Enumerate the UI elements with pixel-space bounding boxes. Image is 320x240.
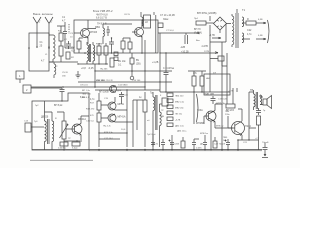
- coupling capacitor box C6a: [158, 23, 163, 28]
- resistor R5: [97, 46, 101, 55]
- svg-text:МВ 0,1: МВ 0,1: [82, 97, 90, 99]
- wire: [188, 71, 206, 92]
- power rail to C7: [158, 32, 199, 34]
- input band switch box A1: [29, 33, 49, 71]
- svg-text:Гр: Гр: [263, 110, 266, 112]
- coil L7: [103, 28, 104, 44]
- svg-text:С15: С15: [104, 98, 109, 100]
- svg-text:25: 25: [40, 45, 43, 48]
- resistor R14: [143, 100, 147, 112]
- svg-text:ПЧВ 10В: ПЧВ 10В: [204, 93, 214, 96]
- svg-text:С6 15: С6 15: [124, 14, 131, 16]
- svg-text:ГР: ГР: [161, 110, 164, 112]
- svg-text:10: 10: [70, 37, 73, 39]
- node s3: [76, 140, 77, 141]
- node q1: [111, 37, 112, 38]
- wire: [99, 43, 106, 64]
- wire: [45, 112, 53, 150]
- node k: [126, 149, 128, 151]
- wire: [260, 95, 263, 105]
- svg-text:С5 20: С5 20: [62, 72, 69, 74]
- wire: [101, 97, 133, 122]
- loudspeaker BA1: [263, 99, 267, 105]
- svg-text:Внеш. антенны: Внеш. антенны: [33, 12, 53, 16]
- pin tick 1': [140, 12, 142, 17]
- AF box outline: [32, 93, 89, 150]
- svg-text:2: 2: [26, 88, 28, 92]
- arrow out 2: [242, 38, 266, 40]
- svg-text:≈127В: ≈127В: [201, 45, 208, 48]
- svg-text:С16 5,0: С16 5,0: [86, 121, 94, 123]
- svg-text:Гр2: Гр2: [35, 105, 39, 107]
- wire VT4 emitter to bottom: [64, 141, 81, 142]
- driver stage resistor R12: [97, 101, 101, 110]
- svg-text:об: об: [147, 120, 150, 122]
- svg-text:ДВ: ДВ: [200, 144, 203, 146]
- node u4: [201, 91, 202, 92]
- wire: [194, 138, 199, 140]
- ground bus: [32, 149, 262, 151]
- node d: [111, 52, 113, 54]
- svg-text:ПВ5: ПВ5: [223, 137, 228, 139]
- svg-text:СГ: СГ: [213, 72, 217, 75]
- voltage table resistor Rb: [167, 99, 173, 103]
- wire hang stubs: [153, 135, 205, 139]
- wire: [19, 79, 21, 83]
- node s2: [63, 149, 64, 150]
- resistor R10: [246, 21, 256, 25]
- svg-text:С7 10 +10,2В: С7 10 +10,2В: [160, 14, 175, 17]
- wire: [60, 41, 62, 62]
- arrowhead rail y52: [215, 52, 218, 54]
- wire y52 rail: [160, 52, 218, 54]
- svg-text:(2В): (2В): [136, 63, 141, 66]
- wire: [79, 38, 83, 53]
- wire: [215, 127, 233, 129]
- wire: [57, 112, 64, 150]
- svg-text:180: 180: [62, 76, 66, 78]
- electrolytic capacitor C24: [203, 139, 207, 149]
- wire: [160, 103, 163, 105]
- svg-text:ЛВ 15к: ЛВ 15к: [175, 114, 182, 116]
- wire: [206, 16, 214, 23]
- svg-text:С7 10,0: С7 10,0: [166, 30, 174, 32]
- wire trunk x160: [159, 33, 161, 92]
- transistor VT7: [206, 111, 216, 121]
- coil L1: [53, 35, 55, 59]
- electrolytic capacitor C25: [226, 139, 230, 149]
- svg-text:1': 1': [39, 21, 41, 24]
- svg-text:Тр1: Тр1: [34, 121, 38, 123]
- VHF tuner block box U1: [74, 20, 158, 53]
- wire base feed VT1: [65, 33, 81, 48]
- wire trunk x127: [126, 90, 128, 147]
- node v4: [193, 149, 194, 150]
- voltage table resistor Ra: [167, 93, 173, 97]
- node h: [94, 86, 96, 88]
- node f: [131, 70, 133, 72]
- svg-text:МП6 1м: МП6 1м: [200, 133, 208, 135]
- wire: [228, 109, 242, 140]
- node s6: [210, 149, 211, 150]
- resistor R1: [59, 33, 63, 41]
- IF transformer L3/L4: [87, 45, 89, 61]
- wire trunk x95: [94, 64, 96, 87]
- node u2: [165, 91, 166, 92]
- voltage table resistor Re: [167, 117, 173, 121]
- power transformer T1: [232, 16, 234, 45]
- svg-text:4,7к: 4,7к: [90, 98, 95, 101]
- caption rule: [30, 159, 93, 161]
- wire: [210, 24, 226, 47]
- wire C1 feed stub: [57, 26, 65, 33]
- capacitor C17: [256, 108, 261, 115]
- capacitor C8: [130, 58, 134, 64]
- node v6: [227, 149, 228, 150]
- node s7: [248, 139, 249, 140]
- node r4: [94, 70, 95, 71]
- electrolytic capacitor C19: [192, 139, 196, 149]
- svg-text:2': 2': [51, 21, 53, 24]
- svg-text:МП5 1к: МП5 1к: [216, 126, 223, 128]
- svg-text:МП26Б: МП26Б: [196, 122, 204, 125]
- svg-text:6,8 10,7 В: 6,8 10,7 В: [96, 17, 107, 20]
- diode bridge VD1: [214, 17, 227, 30]
- electrolytic capacitor C23: [170, 139, 174, 149]
- svg-text:6,3В: 6,3В: [258, 35, 263, 37]
- AGC capacitor box: [218, 56, 224, 61]
- node r1: [77, 63, 78, 64]
- wire: [87, 20, 89, 44]
- node t1: [126, 89, 127, 90]
- node n: [237, 149, 239, 151]
- brace: [268, 20, 270, 43]
- resistor R8: [110, 58, 114, 67]
- svg-text:R17: R17: [90, 103, 95, 105]
- electrolytic capacitor C18: [161, 139, 165, 149]
- resistor R7 ladder top boxes: [114, 52, 118, 56]
- svg-text:(0,25А): (0,25А): [194, 32, 202, 35]
- fuse F1: [196, 21, 206, 25]
- svg-text:С10 390: С10 390: [96, 80, 105, 82]
- arrow out 1: [256, 22, 266, 24]
- wire: [222, 112, 259, 150]
- svg-text:С13: С13: [24, 121, 29, 123]
- svg-text:Пр1: Пр1: [194, 18, 199, 20]
- svg-text:0,05К: 0,05К: [196, 148, 202, 150]
- svg-text:МП41А: МП41А: [118, 116, 126, 119]
- wire from contact 2 to C13: [31, 87, 62, 89]
- svg-text:+0,8: +0,8: [81, 67, 86, 70]
- resistor R16: [257, 116, 261, 125]
- node b: [48, 47, 50, 49]
- electrolytic capacitor C7: [185, 33, 188, 44]
- wire: [123, 38, 130, 53]
- IF transformer L8: [144, 15, 151, 28]
- svg-text:Блок УКВ ИП-2: Блок УКВ ИП-2: [93, 9, 113, 13]
- plus sign C25: [225, 140, 227, 142]
- switch contact box 2: [23, 85, 31, 93]
- switch contact box 1: [16, 71, 24, 79]
- svg-text:+1,2В: +1,2В: [152, 61, 159, 64]
- wire bottom of input filter: [49, 61, 78, 63]
- jack socket X1: [131, 71, 133, 76]
- wire: [220, 24, 231, 34]
- svg-text:R: R: [55, 118, 57, 120]
- voltage table resistor Rf: [167, 123, 173, 127]
- svg-text:6,3В: 6,3В: [258, 19, 263, 21]
- wire mid bus 1: [78, 63, 108, 65]
- wire: [98, 93, 100, 147]
- svg-text:L1: L1: [45, 54, 48, 56]
- capacitor C5a: [107, 26, 111, 36]
- node l: [144, 149, 146, 151]
- node j: [98, 149, 100, 151]
- svg-text:220к: 220к: [225, 114, 230, 116]
- node r3: [105, 63, 106, 64]
- svg-text:L8: L8: [145, 21, 148, 24]
- svg-text:С21: С21: [243, 142, 248, 144]
- node r5: [144, 70, 145, 71]
- transistor VT6: [108, 114, 116, 122]
- wire long bus y82: [78, 81, 172, 83]
- svg-text:КП303: КП303: [90, 31, 98, 34]
- capacitor C14: [72, 142, 80, 146]
- svg-text:ВП 8,2к: ВП 8,2к: [54, 104, 63, 107]
- svg-text:МВ2 20к: МВ2 20к: [175, 108, 184, 110]
- transistor VT1: [81, 29, 90, 38]
- node u1: [165, 52, 166, 53]
- capacitor C16: [211, 96, 216, 104]
- svg-text:Т1: Т1: [242, 8, 246, 12]
- svg-text:R18 470: R18 470: [86, 109, 95, 111]
- wire: [204, 104, 222, 128]
- resistor R3: [77, 41, 81, 49]
- wire: [193, 92, 195, 124]
- svg-text:МВ2 2,2к: МВ2 2,2к: [175, 102, 184, 104]
- wire hang stubs 2: [183, 137, 215, 141]
- detector section verticals: [210, 42, 227, 112]
- svg-text:-4,7В: -4,7В: [175, 120, 181, 122]
- electrolytic capacitor C22: [151, 139, 155, 149]
- wire: [249, 125, 259, 140]
- resistor hang Rg: [181, 141, 185, 148]
- ground: [76, 71, 81, 78]
- wire: [132, 20, 142, 53]
- wire trunk x137: [133, 100, 143, 130]
- svg-text:R: R: [247, 18, 249, 21]
- resistor R2: [59, 46, 63, 56]
- output stage feed wires: [233, 88, 237, 104]
- node w1: [36, 46, 38, 48]
- transistor VT4: [72, 124, 82, 134]
- svg-text:1: 1: [19, 74, 21, 78]
- node r8: [159, 81, 160, 82]
- wire AF box top feeds: [45, 101, 90, 116]
- resistor R11: [60, 142, 68, 146]
- svg-text:4,7: 4,7: [62, 20, 66, 23]
- svg-text:4,7: 4,7: [41, 60, 45, 63]
- svg-text:70мкФ: 70мкФ: [262, 141, 269, 144]
- capacitor C15: [119, 92, 124, 104]
- svg-text:ЛВ4 220: ЛВ4 220: [175, 96, 184, 98]
- node v3: [171, 149, 172, 150]
- svg-text:ДВ2 1,5к: ДВ2 1,5к: [175, 126, 184, 128]
- resistor R13: [97, 113, 101, 122]
- detector block box: [204, 74, 230, 95]
- node v2: [162, 149, 163, 150]
- svg-text:ДВ: ДВ: [161, 116, 164, 118]
- resistor R6: [104, 46, 108, 55]
- svg-text:ПЧ 465: ПЧ 465: [100, 69, 108, 71]
- svg-text:МП41: МП41: [118, 103, 125, 106]
- wire VT7 bottom: [210, 121, 212, 150]
- node s1: [61, 100, 62, 101]
- svg-text:1к: 1к: [139, 96, 142, 99]
- voltage table resistor Rd: [167, 111, 173, 115]
- svg-text:30мк: 30мк: [163, 18, 169, 21]
- node r6: [159, 52, 160, 53]
- side component box: [25, 123, 31, 132]
- node v5: [204, 149, 205, 150]
- pin tick 2': [153, 12, 155, 15]
- wire tie: [210, 59, 227, 67]
- svg-text:L2: L2: [55, 66, 58, 68]
- svg-text:С3: С3: [70, 33, 74, 35]
- transistor VT2: [135, 28, 144, 37]
- dashed block boundary: [68, 24, 70, 34]
- node a: [28, 47, 30, 49]
- node c: [84, 52, 86, 54]
- volume potentiometer RP1: [62, 121, 66, 139]
- svg-text:10,0: 10,0: [121, 129, 126, 131]
- svg-text:-0,25: -0,25: [88, 67, 94, 70]
- brace 2: [197, 94, 199, 122]
- resistor R9: [192, 76, 196, 86]
- coupling box: [162, 98, 168, 106]
- node g: [62, 86, 64, 88]
- wire C9 drop: [160, 53, 230, 92]
- resistor hang Rh: [213, 141, 217, 148]
- node m: [221, 149, 223, 151]
- svg-text:С22: С22: [247, 29, 252, 32]
- wire: [49, 35, 53, 62]
- svg-text:R5 R6: R5 R6: [96, 44, 103, 46]
- svg-text:С22 70мкФ: С22 70мкФ: [214, 143, 226, 146]
- svg-text:ГР: ГР: [68, 138, 71, 140]
- svg-text:С2: С2: [64, 39, 68, 41]
- wire trunk x133: [132, 100, 134, 147]
- svg-text:470: 470: [90, 115, 94, 117]
- coil L2: [54, 64, 56, 75]
- svg-text:Тр2 II об: Тр2 II об: [147, 134, 156, 136]
- svg-text:ВП 1,2в: ВП 1,2в: [82, 90, 91, 92]
- svg-text:ЛВ4 С16: ЛВ4 С16: [82, 94, 92, 96]
- wire: [31, 126, 44, 128]
- svg-text:ДВ4 12в+: ДВ4 12в+: [177, 131, 187, 133]
- wire long bus y87: [31, 86, 145, 88]
- capacitor C3: [66, 52, 70, 59]
- node r7: [144, 86, 145, 87]
- svg-text:ТВ: ТВ: [250, 89, 253, 92]
- node e: [141, 52, 143, 54]
- wire: [153, 92, 160, 147]
- svg-text:II: II: [160, 95, 162, 97]
- capacitor C10: [200, 76, 204, 86]
- svg-text:0,1: 0,1: [118, 64, 122, 67]
- wire output row: [238, 139, 259, 141]
- svg-text:П214: П214: [245, 125, 251, 128]
- transistor VT5: [108, 102, 116, 110]
- capacitor C5: [128, 42, 132, 49]
- svg-text:С12 6800: С12 6800: [118, 85, 128, 87]
- wire trunk x132b: [131, 53, 133, 71]
- wire: [262, 157, 268, 159]
- wire vertical right of L8: [155, 15, 157, 53]
- wire: [231, 14, 233, 47]
- wire: [87, 42, 93, 64]
- resistor R4: [121, 41, 125, 49]
- svg-text:С14 100: С14 100: [132, 80, 141, 82]
- wire long bus y71: [95, 70, 172, 72]
- wire: [53, 62, 55, 78]
- svg-text:4,7к: 4,7к: [247, 33, 252, 36]
- antenna W1: [33, 17, 41, 47]
- output transistor VT8: [232, 122, 245, 135]
- wire: [144, 92, 146, 147]
- resistor R15: [226, 104, 235, 108]
- node v1: [152, 149, 153, 150]
- svg-text:ВП 6ПЦ (220В): ВП 6ПЦ (220В): [197, 11, 217, 15]
- svg-text:С15 0,05: С15 0,05: [119, 95, 129, 97]
- wire: [66, 116, 81, 141]
- svg-text:С 0,047мк: С 0,047мк: [163, 67, 175, 70]
- plus sign C23: [169, 140, 171, 142]
- capacitor C2: [66, 41, 71, 49]
- wire lower mid: [99, 133, 127, 139]
- node i: [237, 139, 239, 141]
- capacitor C6: [109, 38, 114, 53]
- svg-text:127В: 127В: [204, 51, 210, 53]
- svg-text:R2: R2: [71, 57, 75, 59]
- wire trunk x145: [144, 40, 146, 90]
- svg-text:С19 0,05: С19 0,05: [218, 99, 228, 101]
- wire bus y90 mid: [95, 89, 160, 91]
- svg-text:ПЧ 4,7к: ПЧ 4,7к: [103, 126, 111, 128]
- wire collector rail inside U1: [88, 24, 132, 29]
- wire: [249, 90, 254, 140]
- node s4: [98, 132, 99, 133]
- svg-text:Вкл: Вкл: [196, 40, 200, 42]
- node u3: [193, 91, 194, 92]
- svg-text:С9 0,01: С9 0,01: [80, 85, 88, 87]
- voltage table resistor Rc: [167, 105, 173, 109]
- node s5: [126, 132, 127, 133]
- antenna W2: [45, 17, 53, 47]
- transistor VT3: [110, 86, 117, 93]
- node r2: [98, 63, 99, 64]
- svg-text:У23А: У23А: [197, 109, 203, 112]
- capacitor C13: [60, 88, 65, 101]
- node w2: [48, 46, 50, 48]
- svg-text:ВП 100В: ВП 100В: [99, 91, 109, 94]
- svg-text:6,8: 6,8: [72, 50, 76, 53]
- wire: [242, 22, 246, 24]
- svg-text:-12В: -12В: [180, 46, 185, 49]
